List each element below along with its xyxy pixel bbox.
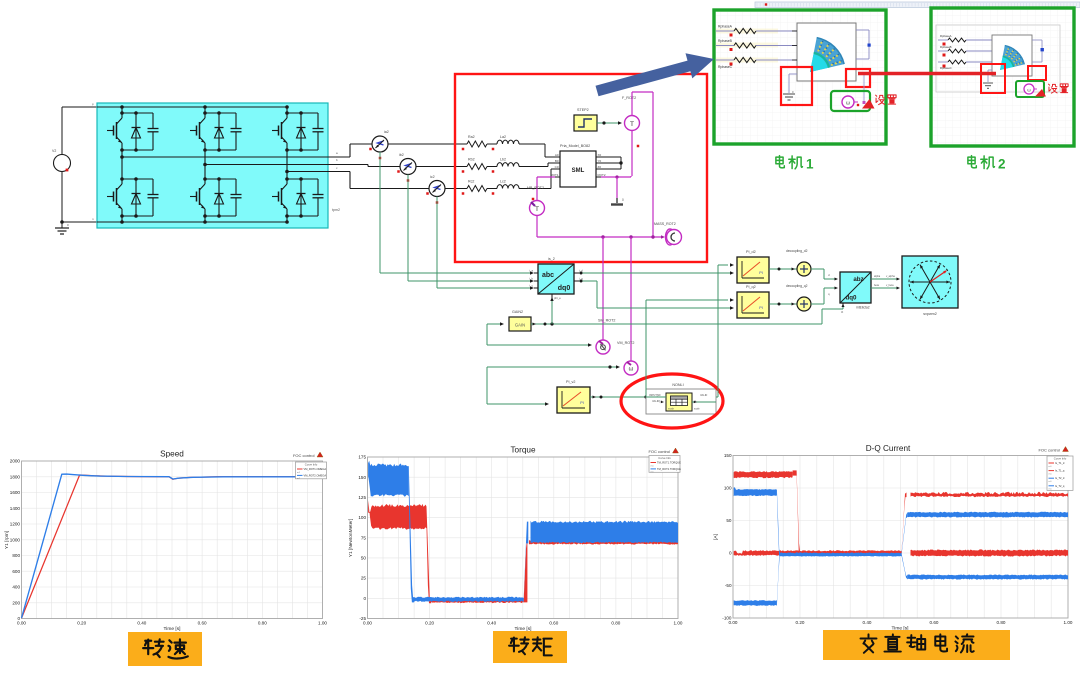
red highlight ground area motor1 bbox=[781, 67, 812, 105]
wire i_q to PI_q2 bbox=[579, 280, 734, 310]
svg-text:0.20: 0.20 bbox=[77, 621, 86, 626]
svg-text:0: 0 bbox=[67, 223, 69, 227]
svg-text:VM_ROT2.OMEGA: VM_ROT2.OMEGA bbox=[304, 473, 327, 477]
svg-text:C0: C0 bbox=[555, 165, 559, 169]
svg-text:PI_q2: PI_q2 bbox=[746, 285, 756, 289]
wire summers to transform bbox=[811, 269, 838, 304]
svg-text:0.60: 0.60 bbox=[198, 621, 207, 626]
svg-text:VM_ROT1.OMEGA: VM_ROT1.OMEGA bbox=[304, 467, 327, 471]
svg-text:Time [s]: Time [s] bbox=[164, 626, 181, 632]
green highlight box motor 1 model bbox=[714, 10, 886, 144]
svg-text:SM_ROT2: SM_ROT2 bbox=[598, 319, 615, 323]
angle sensor SM_ROT2 bbox=[596, 319, 615, 355]
svg-text:Is_T2_q: Is_T2_q bbox=[1055, 484, 1065, 488]
svg-text:A0: A0 bbox=[555, 153, 559, 157]
phase leg verticals bbox=[122, 150, 287, 179]
svg-text:RphaseC: RphaseC bbox=[940, 66, 952, 70]
summer decoupling_q2 bbox=[786, 284, 811, 311]
svg-text:D-Q Current: D-Q Current bbox=[866, 444, 911, 453]
iq1 band red bbox=[734, 471, 793, 478]
svg-text:0.60: 0.60 bbox=[930, 620, 939, 625]
resistor Rb2 bbox=[462, 158, 487, 173]
wire phase a bbox=[120, 144, 372, 159]
window ruler strip bbox=[755, 2, 1080, 8]
svg-text:dq0: dq0 bbox=[558, 285, 571, 292]
svg-text:1800: 1800 bbox=[10, 474, 21, 479]
chart grid bbox=[733, 456, 1068, 619]
IGBT half-bridge top Q1 with diode D1 and snubber bbox=[107, 111, 159, 152]
wire to speed sensor bbox=[630, 237, 632, 361]
label speed (zhuansu) bbox=[128, 632, 202, 666]
chart grid bbox=[22, 461, 323, 619]
svg-text:decoupling_q2: decoupling_q2 bbox=[786, 284, 808, 288]
wire X0 Y0 Z0 star point bbox=[601, 157, 623, 169]
svg-text:ROT2: ROT2 bbox=[598, 173, 606, 177]
current sensor ic2 bbox=[426, 175, 445, 204]
wire ia2 signal bbox=[380, 152, 534, 275]
voltage source V2 bbox=[52, 149, 71, 176]
svg-text:Curve Info: Curve Info bbox=[1054, 456, 1067, 460]
label settings motor1 (shezhi) bbox=[876, 95, 896, 105]
resistor RphaseA bbox=[716, 25, 797, 37]
svg-text:dq0: dq0 bbox=[845, 295, 857, 302]
svg-text:1.00: 1.00 bbox=[1064, 620, 1073, 625]
svg-text:b: b bbox=[336, 158, 338, 162]
torque legend bbox=[649, 456, 680, 473]
svg-text:Lb2: Lb2 bbox=[500, 158, 506, 162]
red settings triangle motor2 bbox=[1035, 89, 1046, 97]
wire motor2 right terminals bbox=[1032, 40, 1044, 62]
gain block GAIN2 bbox=[509, 310, 531, 331]
inductor Lb2 bbox=[487, 158, 519, 173]
wire bbox=[519, 143, 540, 145]
svg-text:Ra2: Ra2 bbox=[468, 135, 475, 139]
svg-text:Is_T1_d: Is_T1_d bbox=[1055, 461, 1065, 465]
inner panel motor2 bbox=[936, 25, 1060, 92]
svg-text:0.40: 0.40 bbox=[137, 621, 146, 626]
svg-text:PI: PI bbox=[580, 401, 584, 405]
svg-text:beta: beta bbox=[874, 284, 879, 287]
label motor1 (dianji1) bbox=[776, 156, 814, 172]
svg-text:FOC control: FOC control bbox=[1038, 448, 1060, 453]
chart axes bbox=[22, 461, 323, 619]
resistor RphaseB bbox=[938, 45, 992, 57]
svg-text:Curve Info: Curve Info bbox=[305, 462, 318, 466]
svg-text:c: c bbox=[336, 166, 338, 170]
pale row highlights bbox=[716, 29, 778, 63]
red settings triangle motor1 bbox=[862, 99, 875, 109]
svg-text:ω: ω bbox=[1027, 87, 1031, 92]
svg-text:TM_ROT1.TORQUE: TM_ROT1.TORQUE bbox=[657, 461, 681, 465]
wire PI_d2 to summer bbox=[769, 268, 797, 271]
red highlight terminal motor2 bbox=[1028, 66, 1046, 80]
svpwm2 modulator bbox=[902, 256, 958, 316]
PI controller PI_v2 bbox=[557, 380, 590, 413]
IGBT half-bridge bottom Q4 with diode D4 and snubber bbox=[107, 177, 159, 218]
wire ROT1 bbox=[532, 177, 555, 201]
svg-text:1600: 1600 bbox=[10, 490, 21, 495]
wire phase b bbox=[203, 158, 400, 167]
svg-text:alpha: alpha bbox=[874, 275, 881, 278]
svg-text:La2: La2 bbox=[500, 135, 506, 139]
IGBT half-bridge bottom Q5 with diode D5 and snubber bbox=[190, 177, 242, 218]
svg-text:0.00: 0.00 bbox=[17, 621, 26, 626]
label settings motor2 (shezhi) bbox=[1049, 84, 1069, 93]
torque band motor1 red bbox=[368, 500, 426, 529]
svg-text:PI: PI bbox=[759, 306, 763, 310]
id1 steady band red bbox=[911, 549, 1069, 556]
svg-text:0.80: 0.80 bbox=[611, 621, 620, 626]
PI controller PI_q2 bbox=[737, 285, 769, 318]
svg-text:2000: 2000 bbox=[10, 459, 21, 464]
speed curve motor2 blue bbox=[22, 474, 323, 618]
svg-text:Speed: Speed bbox=[160, 450, 184, 459]
svg-text:0.00: 0.00 bbox=[729, 620, 738, 625]
svg-text:n: n bbox=[92, 217, 94, 221]
svg-text:th: th bbox=[841, 310, 844, 314]
svg-text:i_b: i_b bbox=[529, 277, 534, 281]
svg-text:50: 50 bbox=[361, 556, 367, 561]
svg-text:Y1 [rpm]: Y1 [rpm] bbox=[4, 531, 10, 549]
svg-text:NONLI: NONLI bbox=[672, 383, 683, 387]
svg-text:RphaseB: RphaseB bbox=[940, 45, 952, 49]
svg-text:-50: -50 bbox=[725, 583, 732, 588]
resistor RphaseC bbox=[938, 60, 992, 70]
wire F_ROT2 mechanical loop bbox=[632, 92, 653, 237]
svg-text:125: 125 bbox=[358, 495, 366, 500]
svg-text:d: d bbox=[828, 273, 830, 277]
wire GAIN output theta bbox=[531, 297, 845, 326]
torque source F_ROT2 bbox=[622, 96, 640, 147]
red highlight terminal motor1 bbox=[846, 69, 870, 87]
transform block is_2 abc to dq0 bbox=[529, 257, 583, 300]
chart axes bbox=[733, 456, 1068, 619]
wire to angle sensor bbox=[602, 237, 604, 340]
svg-text:scale: scale bbox=[694, 408, 700, 411]
inverter bridge highlight bbox=[97, 103, 328, 228]
wire i_d to PI_d2 bbox=[579, 271, 734, 274]
wire PI_q2 to summer bbox=[769, 303, 797, 306]
inertia MASS_ROT2 bbox=[654, 222, 682, 245]
PI controller PI_d2 bbox=[737, 250, 769, 283]
wire mechanical bus bbox=[537, 216, 665, 239]
svg-text:phi_e: phi_e bbox=[554, 296, 561, 300]
IGBT half-bridge top Q3 with diode D3 and snubber bbox=[272, 111, 324, 152]
svg-text:0.40: 0.40 bbox=[863, 620, 872, 625]
svg-text:Curve Info: Curve Info bbox=[658, 456, 671, 460]
svg-text:1.00: 1.00 bbox=[674, 621, 683, 626]
svg-text:Rb2: Rb2 bbox=[468, 158, 475, 162]
svg-text:T: T bbox=[535, 206, 539, 213]
svg-text:TM_ROT2.TORQUE: TM_ROT2.TORQUE bbox=[657, 467, 681, 471]
wire A0 B0 C0 bbox=[540, 144, 555, 189]
step source STEP2 bbox=[574, 108, 597, 131]
svg-text:0.40: 0.40 bbox=[487, 621, 496, 626]
svg-text:600: 600 bbox=[12, 569, 20, 574]
svg-text:1400: 1400 bbox=[10, 506, 21, 511]
svg-text:2: 2 bbox=[998, 157, 1006, 172]
label motor2 (dianji2) bbox=[968, 156, 1006, 172]
motor 1 FEM block bbox=[792, 23, 856, 81]
svg-text:FOC control: FOC control bbox=[648, 449, 670, 454]
label torque (zhuanju) bbox=[493, 631, 567, 663]
svg-text:RphaseA: RphaseA bbox=[940, 34, 952, 38]
svg-text:0: 0 bbox=[622, 198, 624, 202]
chart axes bbox=[368, 457, 679, 619]
svg-text:Z0: Z0 bbox=[598, 165, 602, 169]
wire PI_v2 output bbox=[590, 395, 648, 398]
wire bbox=[519, 166, 540, 168]
resistor RphaseB bbox=[716, 39, 797, 51]
iq2 band blue bbox=[734, 487, 777, 496]
torque band motor2 blue bbox=[368, 461, 409, 497]
IGBT half-bridge bottom Q6 with diode D6 and snubber bbox=[272, 177, 324, 218]
svg-text:STEP2: STEP2 bbox=[577, 108, 589, 112]
summer decoupling_d2 bbox=[786, 249, 811, 276]
svg-text:tpm2: tpm2 bbox=[332, 208, 340, 212]
svg-text:RphaseB: RphaseB bbox=[718, 39, 733, 43]
svg-text:75: 75 bbox=[361, 535, 367, 540]
svg-text:a: a bbox=[336, 151, 338, 155]
current sensor ib2 bbox=[397, 153, 416, 182]
SML machine model Pria_Model_BO82 bbox=[550, 144, 605, 187]
svg-text:175: 175 bbox=[358, 455, 366, 460]
svg-text:800: 800 bbox=[12, 553, 20, 558]
red emphasis ellipse around NONLI bbox=[621, 374, 723, 428]
svg-text:0.20: 0.20 bbox=[796, 620, 805, 625]
wire bbox=[519, 188, 540, 190]
svg-text:F_ROT2: F_ROT2 bbox=[622, 96, 636, 100]
svg-text:0.80: 0.80 bbox=[997, 620, 1006, 625]
wire step to torque source bbox=[597, 121, 622, 124]
svg-text:GAIN: GAIN bbox=[515, 323, 525, 328]
green highlight box motor 2 model bbox=[931, 8, 1074, 146]
svg-text:Pria_Model_BO82: Pria_Model_BO82 bbox=[560, 144, 590, 148]
svg-text:ROT1: ROT1 bbox=[550, 173, 558, 177]
wire ib2 signal bbox=[408, 175, 534, 283]
svg-text:Y0: Y0 bbox=[598, 159, 602, 163]
wire iq reference to PI_q2 bbox=[646, 298, 734, 397]
inductor Lc2 bbox=[487, 180, 519, 195]
ground motor1 bbox=[783, 74, 797, 100]
svg-text:Is_T1_q: Is_T1_q bbox=[1055, 469, 1065, 473]
svg-text:ib2: ib2 bbox=[399, 153, 404, 157]
dq legend bbox=[1047, 456, 1073, 490]
ground motor2 bbox=[983, 70, 993, 88]
svg-text:GAIN2: GAIN2 bbox=[512, 310, 523, 314]
resistor RphaseC bbox=[716, 57, 797, 69]
current sensor ia2 bbox=[369, 130, 389, 159]
svg-text:0: 0 bbox=[729, 551, 732, 556]
id1 band red bbox=[734, 550, 902, 556]
svg-text:V2: V2 bbox=[52, 149, 56, 153]
svg-text:Is_T2_d: Is_T2_d bbox=[1055, 476, 1065, 480]
svg-text:MB_ROT2: MB_ROT2 bbox=[527, 186, 544, 190]
svg-text:q: q bbox=[828, 292, 830, 296]
wire sensor outputs to RL branches bbox=[388, 144, 467, 189]
svg-text:50: 50 bbox=[726, 518, 732, 523]
svg-text:p: p bbox=[92, 102, 94, 106]
svg-text:SML: SML bbox=[572, 168, 585, 174]
svg-text:ic2: ic2 bbox=[430, 175, 435, 179]
wire motor1 right terminals bbox=[856, 30, 871, 59]
svg-text:PI_v2: PI_v2 bbox=[566, 380, 575, 384]
chart grid bbox=[368, 457, 679, 619]
svg-text:Lc2: Lc2 bbox=[500, 180, 506, 184]
svg-text:ω: ω bbox=[846, 101, 851, 107]
svg-text:X0: X0 bbox=[598, 153, 602, 157]
motor 2 FEM block bbox=[992, 35, 1032, 76]
speed source omega motor2 bbox=[1024, 84, 1037, 94]
svg-text:[A]: [A] bbox=[713, 534, 719, 540]
svg-text:svpwm2: svpwm2 bbox=[923, 312, 937, 316]
svg-text:1000: 1000 bbox=[10, 537, 21, 542]
iq1 steady band red bbox=[911, 492, 1069, 497]
svg-text:0.00: 0.00 bbox=[363, 621, 372, 626]
speed curve motor1 red bbox=[22, 475, 323, 618]
red link wire between motor models bbox=[858, 72, 996, 75]
blue callout arrow bbox=[596, 53, 715, 96]
speed legend bbox=[296, 462, 327, 479]
iq2 steady band blue bbox=[902, 513, 908, 555]
svg-text:0.60: 0.60 bbox=[549, 621, 558, 626]
DC- rail bbox=[97, 216, 289, 224]
svg-text:ω: ω bbox=[629, 367, 634, 373]
red highlight box around motor plant bbox=[455, 74, 707, 262]
svg-text:decoupling_d2: decoupling_d2 bbox=[786, 249, 808, 253]
svg-text:v_beta: v_beta bbox=[886, 284, 894, 287]
svg-text:200: 200 bbox=[12, 600, 20, 605]
wire angle feedback to GAIN bbox=[487, 322, 592, 346]
red highlight ground area motor2 bbox=[981, 64, 1005, 93]
transform block mtElicta2 dq0 to abz bbox=[840, 272, 871, 314]
svg-text:150: 150 bbox=[358, 475, 366, 480]
green speed source box motor1 bbox=[831, 91, 870, 111]
green speed source box motor2 bbox=[1016, 81, 1044, 97]
svg-text:ia2: ia2 bbox=[384, 130, 389, 134]
svg-text:VALID: VALID bbox=[700, 393, 707, 397]
svg-text:Rc2: Rc2 bbox=[468, 180, 474, 184]
svg-text:1: 1 bbox=[806, 157, 814, 172]
svg-text:MASS_ROT2: MASS_ROT2 bbox=[654, 222, 676, 226]
svg-text:0.20: 0.20 bbox=[425, 621, 434, 626]
wire alpha beta to svpwm bbox=[871, 275, 900, 290]
svg-text:INPUT[99: INPUT[99 bbox=[649, 393, 661, 397]
wire ROT2 bbox=[601, 175, 631, 178]
svg-text:150: 150 bbox=[724, 453, 732, 458]
wire speed feedback loop bbox=[487, 365, 620, 405]
svg-text:1200: 1200 bbox=[10, 522, 21, 527]
svg-text:100: 100 bbox=[358, 515, 366, 520]
svg-text:v_alpha: v_alpha bbox=[886, 275, 895, 278]
svg-text:Torque: Torque bbox=[510, 446, 535, 455]
svg-text:FOC control: FOC control bbox=[293, 453, 315, 458]
svg-text:PI_d2: PI_d2 bbox=[746, 250, 756, 254]
rotational reference 0 bbox=[611, 177, 624, 205]
svg-text:VM_ROT2: VM_ROT2 bbox=[617, 341, 634, 345]
svg-text:abz: abz bbox=[853, 276, 863, 283]
IGBT half-bridge top Q2 with diode D2 and snubber bbox=[190, 111, 242, 152]
id2 steady band blue bbox=[902, 554, 908, 579]
blue zero band bbox=[780, 552, 902, 556]
resistor Rc2 bbox=[462, 180, 487, 195]
wire ic2 signal bbox=[437, 197, 534, 290]
wire phase c bbox=[285, 166, 429, 189]
resistor RphaseA bbox=[938, 34, 992, 46]
svg-text:abc: abc bbox=[542, 272, 554, 279]
ground bbox=[55, 220, 69, 234]
DC+ rail bbox=[97, 105, 289, 113]
svg-text:25: 25 bbox=[361, 576, 367, 581]
wire bbox=[62, 107, 97, 222]
torque sensor MB_ROT2 bbox=[527, 186, 545, 216]
svg-text:i_a: i_a bbox=[529, 269, 534, 273]
svg-text:RphaseC: RphaseC bbox=[718, 65, 733, 69]
svg-text:B0: B0 bbox=[555, 159, 559, 163]
wire purple drop motor1 bbox=[863, 75, 866, 104]
svg-text:mode: mode bbox=[668, 408, 675, 411]
speed source omega motor1 bbox=[842, 96, 859, 108]
lookup table NONLI bbox=[646, 383, 716, 414]
svg-text:i_c: i_c bbox=[529, 284, 534, 288]
svg-text:is_2: is_2 bbox=[548, 257, 555, 261]
svg-text:mtElicta2: mtElicta2 bbox=[856, 306, 870, 310]
wire NONLI output to PI_d2 bbox=[716, 263, 734, 397]
resistor Ra2 bbox=[462, 135, 487, 150]
speed sensor VM_ROT2 bbox=[617, 341, 638, 375]
inductor La2 bbox=[487, 135, 519, 150]
svg-text:1.00: 1.00 bbox=[318, 621, 327, 626]
svg-text:0: 0 bbox=[363, 596, 366, 601]
svg-text:T: T bbox=[630, 121, 634, 128]
svg-text:PI: PI bbox=[759, 271, 763, 275]
svg-text:400: 400 bbox=[12, 585, 20, 590]
id2 band blue bbox=[734, 600, 777, 606]
svg-text:0.80: 0.80 bbox=[258, 621, 267, 626]
svg-text:RphaseA: RphaseA bbox=[718, 25, 733, 29]
label dq current (jiaozhizhoudianliu) bbox=[823, 630, 1010, 660]
svg-text:Y1 [NewtonMeter]: Y1 [NewtonMeter] bbox=[348, 519, 354, 557]
svg-text:100: 100 bbox=[724, 486, 732, 491]
